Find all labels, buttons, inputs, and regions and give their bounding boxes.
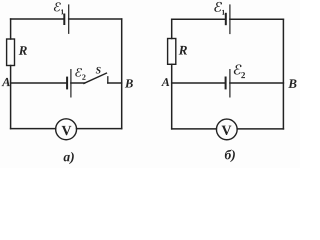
wire: top left segment to battery E1' (172, 18, 225, 20)
resistor R1 body (7, 39, 15, 66)
label node A (right) (161, 78, 169, 86)
caption b) (225, 150, 235, 163)
battery E1' short thick plate (225, 14, 227, 24)
label EMF E2 script glyph (right) (234, 65, 242, 75)
wire: top right segment from battery E1' (230, 18, 284, 20)
battery E1 long thin plate (68, 5, 70, 33)
voltmeter U1 circle (56, 119, 77, 140)
label E1 subscript 1 (right) (222, 10, 225, 15)
label E1 subscript 1 (left) (61, 9, 64, 14)
label V voltmeter (left) (62, 126, 72, 135)
wire: left side above resistor (10, 19, 12, 39)
wire: top right segment from battery E1 (69, 18, 122, 20)
wire: left side above resistor R2 (171, 19, 173, 38)
battery E2' short thick plate (225, 78, 227, 89)
wire: bottom left to voltmeter (11, 128, 56, 130)
voltmeter U2 circle (216, 119, 237, 140)
battery E2 long thin plate (70, 70, 72, 97)
battery E1 short thick plate (63, 15, 65, 25)
battery E2' long thin plate (229, 70, 231, 97)
label R (left resistor) (19, 46, 27, 55)
label R (right resistor) (179, 46, 187, 55)
wire: middle from node A' to battery E2' (172, 82, 225, 84)
label node B (right) (288, 79, 296, 88)
wire: bottom left to voltmeter (172, 128, 217, 130)
label E2 subscript 2 (left) (82, 75, 85, 80)
battery E1' long thin plate (229, 5, 231, 34)
wire: right side (121, 19, 123, 129)
label EMF E2 script glyph (left) (75, 68, 82, 77)
wire: left side below resistor through node A (10, 66, 12, 129)
label E2 subscript 2 (right) (241, 72, 245, 78)
wire: bottom right from voltmeter (237, 128, 283, 130)
label EMF E1 script glyph (left) (54, 2, 61, 11)
label V voltmeter (right) (222, 126, 232, 135)
label EMF E1 script glyph (right) (214, 2, 222, 12)
resistor R2 body (168, 39, 176, 65)
label node B (left) (125, 79, 133, 87)
wire: middle from battery E2' to node B' (230, 82, 284, 84)
wire: top left segment to battery E1 (11, 18, 64, 20)
switch S blade (84, 73, 107, 83)
battery E2 short thick plate (66, 78, 68, 89)
wire: bottom right from voltmeter (77, 128, 122, 130)
wire: right side (282, 19, 284, 129)
caption a) (64, 152, 74, 164)
wire: left side below resistor through node A' (171, 64, 173, 129)
label node A (left) (2, 78, 10, 86)
wire: middle from node A to battery E2 (11, 82, 66, 84)
wire: middle from switch to node B (108, 82, 122, 84)
label switch S (96, 67, 101, 74)
wire: middle from battery E2 to switch pivot (71, 82, 85, 84)
switch S contact post (107, 77, 109, 83)
